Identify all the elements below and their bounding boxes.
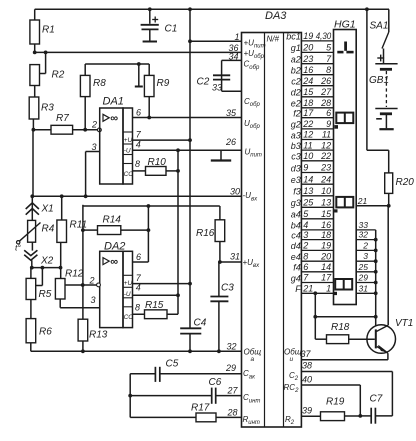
svg-text:c3: c3: [291, 152, 301, 162]
svg-text:R2: R2: [52, 70, 65, 81]
svg-text:38: 38: [302, 361, 312, 371]
svg-text:6: 6: [303, 262, 308, 272]
svg-text:а: а: [251, 356, 255, 363]
svg-text:8: 8: [303, 251, 308, 261]
svg-text:C3: C3: [221, 283, 234, 294]
svg-text:27: 27: [226, 386, 238, 396]
svg-text:R11: R11: [70, 220, 88, 231]
svg-text:C7: C7: [370, 394, 383, 405]
svg-text:2: 2: [362, 240, 368, 250]
svg-text:R16: R16: [196, 228, 215, 239]
svg-text:8: 8: [135, 159, 140, 169]
svg-text:CC: CC: [124, 171, 134, 178]
svg-text:R1: R1: [42, 25, 55, 36]
svg-text:23: 23: [302, 54, 313, 64]
svg-text:6: 6: [136, 108, 141, 118]
svg-text:16: 16: [321, 220, 331, 230]
svg-text:2: 2: [91, 120, 97, 130]
svg-text:13: 13: [303, 186, 313, 196]
svg-text:2: 2: [302, 241, 308, 251]
svg-text:3: 3: [303, 230, 308, 240]
svg-text:t°: t°: [15, 243, 21, 253]
svg-text:f4: f4: [293, 263, 301, 273]
svg-text:14: 14: [303, 174, 313, 184]
svg-text:12: 12: [303, 130, 313, 140]
svg-text:a3: a3: [291, 130, 301, 140]
svg-text:∞: ∞: [110, 113, 118, 125]
svg-text:C2: C2: [197, 77, 210, 88]
svg-text:19: 19: [321, 241, 331, 251]
svg-text:SA1: SA1: [370, 21, 389, 32]
svg-text:g3: g3: [291, 198, 301, 208]
svg-text:4,30: 4,30: [316, 31, 332, 41]
svg-text:R3: R3: [41, 103, 54, 114]
svg-text:VT1: VT1: [395, 318, 413, 329]
svg-text:33: 33: [212, 83, 222, 93]
svg-text:F: F: [295, 284, 301, 294]
svg-text:19: 19: [303, 31, 313, 41]
svg-text:g4: g4: [291, 273, 301, 283]
svg-text:X2: X2: [40, 256, 54, 267]
svg-text:X1: X1: [41, 204, 54, 215]
svg-text:DA1: DA1: [103, 96, 124, 108]
svg-text:и: и: [290, 356, 294, 363]
svg-text:22: 22: [320, 151, 331, 161]
svg-text:b2: b2: [291, 66, 301, 76]
svg-text:-U: -U: [124, 291, 131, 298]
svg-text:R10: R10: [148, 157, 167, 168]
svg-text:DA3: DA3: [265, 10, 287, 22]
svg-text:31: 31: [230, 252, 240, 262]
svg-text:20: 20: [320, 251, 331, 261]
svg-text:R17: R17: [191, 403, 210, 414]
svg-text:d2: d2: [291, 88, 301, 98]
svg-text:bc1: bc1: [286, 32, 301, 42]
svg-text:15: 15: [303, 87, 314, 97]
svg-text:25: 25: [302, 198, 314, 208]
svg-text:17: 17: [303, 108, 314, 118]
svg-text:10: 10: [303, 151, 313, 161]
svg-text:CC: CC: [124, 314, 134, 321]
svg-text:R5: R5: [39, 289, 52, 300]
svg-text:R14: R14: [103, 215, 122, 226]
svg-text:R8: R8: [93, 78, 106, 89]
svg-text:35: 35: [226, 108, 237, 118]
svg-text:C1: C1: [165, 24, 178, 35]
svg-text:21: 21: [357, 196, 368, 206]
svg-text:6: 6: [326, 108, 331, 118]
svg-text:9: 9: [326, 119, 331, 129]
svg-text:3: 3: [90, 295, 95, 305]
svg-text:R20: R20: [396, 177, 415, 188]
svg-text:29: 29: [358, 273, 369, 283]
svg-text:c4: c4: [291, 230, 301, 240]
svg-text:2: 2: [88, 276, 94, 286]
svg-text:f3: f3: [293, 187, 301, 197]
svg-text:28: 28: [320, 98, 331, 108]
svg-text:f2: f2: [293, 109, 301, 119]
svg-text:R13: R13: [89, 330, 108, 341]
svg-text:14: 14: [321, 262, 331, 272]
svg-text:R6: R6: [39, 327, 52, 338]
svg-text:18: 18: [321, 230, 331, 240]
svg-text:16: 16: [303, 65, 313, 75]
svg-text:20: 20: [302, 43, 313, 53]
svg-text:28: 28: [226, 408, 237, 418]
svg-text:13: 13: [321, 198, 331, 208]
svg-text:1: 1: [234, 32, 239, 42]
svg-text:R9: R9: [157, 78, 170, 89]
svg-text:30: 30: [230, 187, 240, 197]
svg-text:8: 8: [135, 302, 140, 312]
svg-text:C5: C5: [166, 359, 179, 370]
svg-text:N/#: N/#: [267, 35, 280, 44]
svg-text:e4: e4: [291, 252, 301, 262]
svg-text:R15: R15: [145, 300, 164, 311]
svg-text:26: 26: [225, 137, 236, 147]
svg-text:1: 1: [326, 284, 331, 294]
svg-text:23: 23: [320, 163, 331, 173]
svg-text:24: 24: [302, 76, 313, 86]
svg-text:25: 25: [358, 262, 369, 272]
svg-text:R19: R19: [326, 397, 345, 408]
svg-text:R12: R12: [65, 269, 84, 280]
svg-text:33: 33: [359, 220, 369, 230]
svg-text:C6: C6: [209, 377, 222, 388]
svg-text:+U: +U: [124, 280, 133, 287]
svg-text:-U: -U: [124, 148, 131, 155]
svg-text:24: 24: [320, 174, 331, 184]
svg-text:18: 18: [303, 98, 313, 108]
svg-text:22: 22: [302, 119, 313, 129]
svg-text:26: 26: [320, 76, 331, 86]
svg-text:∞: ∞: [110, 256, 118, 268]
svg-text:a2: a2: [291, 55, 301, 65]
svg-text:b4: b4: [291, 221, 301, 231]
svg-text:g2: g2: [291, 120, 301, 130]
svg-text:40: 40: [302, 374, 312, 384]
svg-text:9: 9: [303, 163, 308, 173]
svg-text:10: 10: [321, 186, 331, 196]
svg-text:8: 8: [326, 65, 331, 75]
svg-text:32: 32: [359, 230, 369, 240]
svg-text:b3: b3: [291, 141, 301, 151]
svg-text:3: 3: [363, 251, 368, 261]
svg-text:27: 27: [320, 87, 332, 97]
svg-text:a4: a4: [291, 210, 301, 220]
svg-text:g1: g1: [291, 43, 301, 53]
svg-text:d4: d4: [291, 241, 301, 251]
svg-text:e2: e2: [291, 99, 301, 109]
svg-text:11: 11: [322, 130, 331, 140]
svg-text:31: 31: [359, 283, 369, 293]
svg-text:c2: c2: [291, 77, 301, 87]
svg-text:d3: d3: [291, 163, 301, 173]
svg-text:+U: +U: [124, 137, 133, 144]
svg-text:39: 39: [302, 406, 312, 416]
svg-text:e3: e3: [291, 175, 301, 185]
svg-text:R7: R7: [56, 113, 69, 124]
svg-text:4: 4: [303, 220, 308, 230]
svg-text:R18: R18: [331, 322, 350, 333]
svg-text:6: 6: [136, 252, 141, 262]
svg-text:12: 12: [321, 140, 331, 150]
svg-text:11: 11: [303, 140, 312, 150]
svg-text:15: 15: [321, 209, 332, 219]
svg-text:32: 32: [226, 342, 236, 352]
svg-text:21: 21: [302, 284, 313, 294]
svg-text:37: 37: [300, 349, 311, 359]
svg-text:R4: R4: [42, 224, 55, 235]
svg-text:DA2: DA2: [104, 241, 125, 253]
svg-text:C4: C4: [194, 318, 207, 329]
svg-text:29: 29: [225, 363, 236, 373]
svg-text:17: 17: [321, 273, 332, 283]
svg-text:HG1: HG1: [334, 19, 356, 31]
svg-text:3: 3: [91, 142, 96, 152]
